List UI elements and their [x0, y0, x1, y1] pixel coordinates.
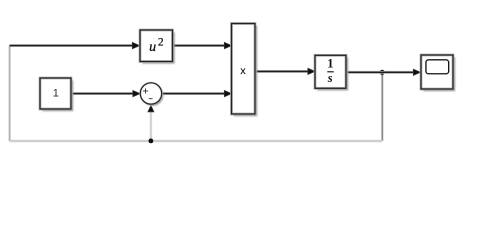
svg-text:2: 2	[158, 36, 164, 48]
svg-text:x: x	[240, 65, 246, 77]
svg-text:1: 1	[327, 56, 333, 70]
svg-text:s: s	[327, 71, 333, 85]
svg-text:u: u	[149, 40, 156, 55]
svg-text:1: 1	[53, 87, 59, 99]
